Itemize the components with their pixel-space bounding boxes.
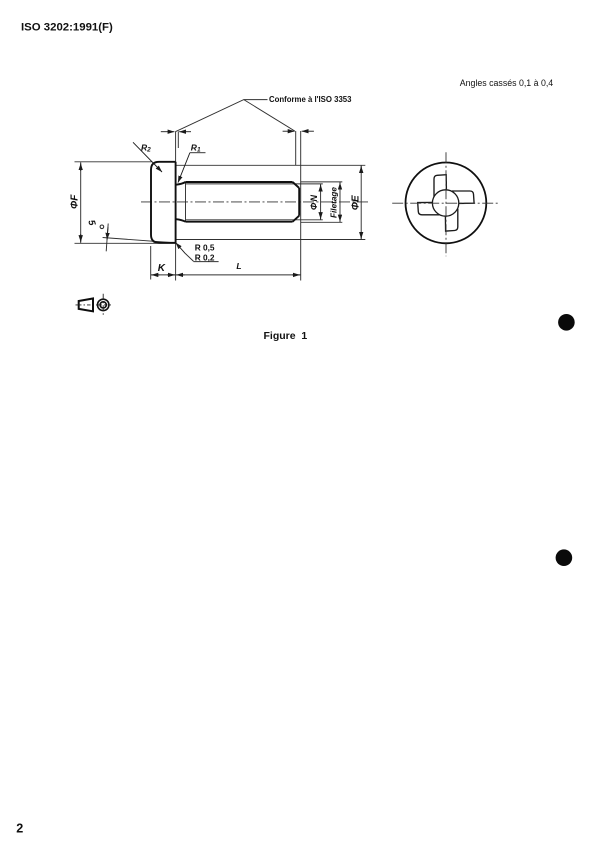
svg-text:5: 5 — [85, 219, 97, 228]
svg-text:R 0,5: R 0,5 — [195, 243, 215, 253]
svg-text:Filetage: Filetage — [330, 187, 339, 218]
svg-text:R2: R2 — [141, 142, 151, 153]
svg-text:2: 2 — [16, 821, 23, 835]
svg-text:Conforme à l'ISO 3353: Conforme à l'ISO 3353 — [269, 95, 352, 104]
svg-text:ISO 3202:1991(F): ISO 3202:1991(F) — [21, 22, 113, 34]
svg-text:R 0,2: R 0,2 — [195, 252, 215, 262]
svg-text:R1: R1 — [191, 142, 201, 153]
svg-text:ΦF: ΦF — [69, 194, 80, 209]
svg-text:Figure 1: Figure 1 — [264, 330, 308, 342]
svg-text:Angles cassés 0,1 à 0,4: Angles cassés 0,1 à 0,4 — [460, 78, 554, 88]
svg-text:ΦN: ΦN — [309, 194, 319, 210]
svg-text:ΦE: ΦE — [350, 195, 361, 210]
svg-text:L: L — [236, 261, 241, 271]
svg-text:K: K — [158, 263, 166, 274]
